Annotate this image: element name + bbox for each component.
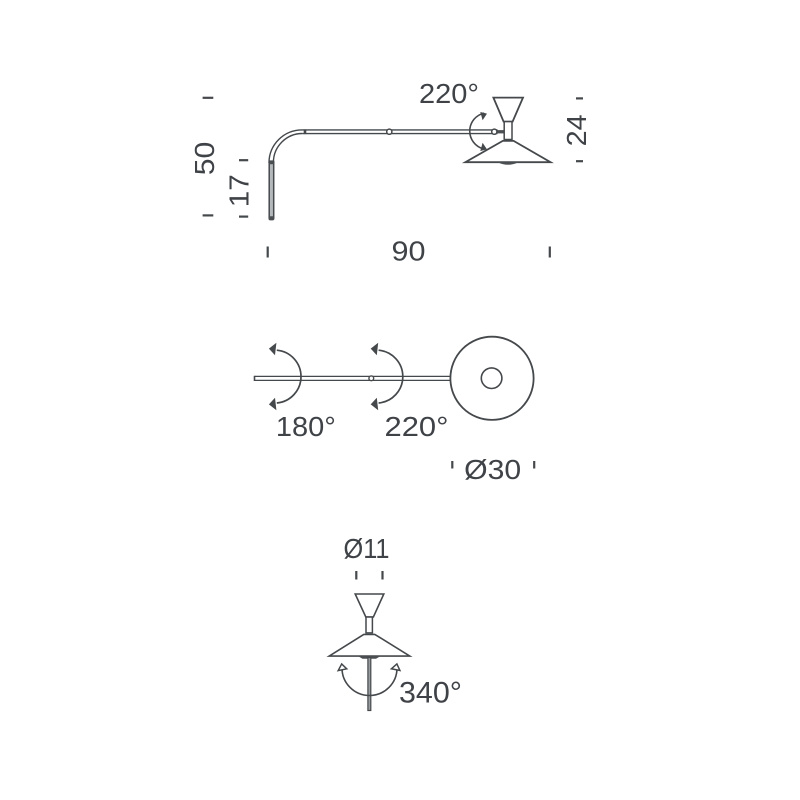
svg-text:340°: 340° xyxy=(399,677,462,710)
lamp shade cone front xyxy=(329,634,410,656)
arrowhead left of 340 arc xyxy=(337,663,347,670)
dimension 24 top tick xyxy=(576,97,583,99)
arrowhead bottom of 180 arc xyxy=(269,398,277,411)
rotation arc 340 xyxy=(342,668,397,696)
bulb under shade xyxy=(498,162,519,165)
swivel joint circle xyxy=(492,129,497,134)
dimension 90 left tick xyxy=(267,247,269,258)
lamp shade cone xyxy=(465,141,550,162)
arrowhead right of 340 arc xyxy=(391,663,401,670)
arm stub to lamp head xyxy=(497,130,506,133)
lamp upper cone front xyxy=(355,594,384,617)
svg-text:90: 90 xyxy=(392,235,426,266)
arrowhead top of 180 arc xyxy=(269,343,277,356)
svg-text:220°: 220° xyxy=(419,78,479,109)
wall bracket left edge xyxy=(268,162,270,219)
svg-text:24: 24 xyxy=(561,114,592,146)
lamp upper cone (funnel) xyxy=(493,98,523,122)
bulb socket under shade front xyxy=(358,656,381,659)
dimension 11 left tick xyxy=(355,571,357,580)
lamp neck xyxy=(504,122,512,140)
swivel joint circle (plan) xyxy=(369,376,374,381)
stem rod xyxy=(368,658,371,711)
dimension 11 right tick xyxy=(381,571,383,580)
wall bracket tube body xyxy=(269,162,275,219)
svg-text:17: 17 xyxy=(224,174,255,207)
arm tube bottom line (plan) xyxy=(255,379,451,381)
dimension 17 top tick xyxy=(239,159,248,161)
arm tube horizontal bottom line xyxy=(302,133,497,135)
shade disc outer circle (plan) xyxy=(450,337,533,420)
dimension 24 bottom tick xyxy=(576,160,583,162)
dimension 30 right tick xyxy=(533,461,535,469)
arm tube curved section outer line xyxy=(269,130,302,163)
dimension 50 top tick xyxy=(203,97,214,99)
lamp neck front xyxy=(366,617,372,633)
shade disc inner circle (plan) xyxy=(481,368,502,389)
arm tube curved section inner line xyxy=(273,134,302,163)
arrowhead top of 220 plan arc xyxy=(371,343,379,356)
svg-text:220°: 220° xyxy=(385,411,449,442)
arm tube top line (plan) xyxy=(255,375,451,377)
dimension 50 bottom tick xyxy=(203,214,214,216)
wall bracket top collar xyxy=(269,160,275,164)
dimension 90 right tick xyxy=(549,247,551,258)
arm connector tick xyxy=(304,129,307,134)
svg-text:Ø30: Ø30 xyxy=(464,454,521,485)
rotation arc 180 xyxy=(277,350,301,403)
svg-text:180°: 180° xyxy=(276,411,336,442)
arm tube horizontal top line xyxy=(302,129,498,131)
dimension 30 left tick xyxy=(451,461,453,469)
svg-text:50: 50 xyxy=(189,142,220,176)
arrowhead top of 220 arc xyxy=(480,112,487,120)
wall bracket bottom cap xyxy=(269,216,275,220)
svg-text:Ø11: Ø11 xyxy=(344,533,390,564)
dimension 17 bottom tick xyxy=(239,216,248,218)
arm tube end cap (plan) xyxy=(254,376,256,381)
mid-arm joint circle xyxy=(387,129,392,134)
rotation arc 220 (plan) xyxy=(379,350,403,403)
wall bracket right edge xyxy=(273,162,275,219)
arrowhead bottom of 220 arc xyxy=(480,143,487,151)
rotation arc 220 (side view) xyxy=(470,113,484,149)
arrowhead bottom of 220 plan arc xyxy=(371,398,379,411)
